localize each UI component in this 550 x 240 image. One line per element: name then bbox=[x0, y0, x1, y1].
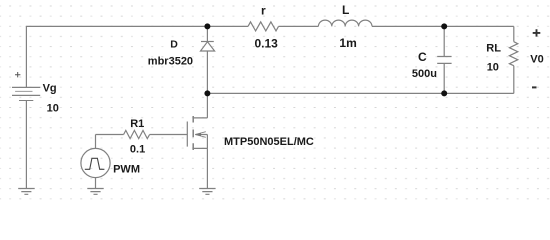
svg-text:R1: R1 bbox=[130, 118, 144, 130]
svg-text:C: C bbox=[418, 50, 427, 64]
svg-text:V0: V0 bbox=[530, 53, 543, 65]
svg-text:1m: 1m bbox=[339, 36, 356, 50]
svg-text:D: D bbox=[170, 38, 178, 50]
svg-text:MTP50N05EL/MC: MTP50N05EL/MC bbox=[224, 136, 314, 148]
svg-text:RL: RL bbox=[486, 43, 501, 55]
svg-text:500u: 500u bbox=[412, 68, 437, 80]
svg-text:0.13: 0.13 bbox=[255, 37, 279, 51]
svg-text:mbr3520: mbr3520 bbox=[148, 55, 193, 67]
svg-text:10: 10 bbox=[47, 102, 59, 114]
svg-text:10: 10 bbox=[487, 61, 499, 73]
svg-text:L: L bbox=[342, 3, 349, 17]
svg-text:r: r bbox=[261, 3, 266, 17]
svg-text:0.1: 0.1 bbox=[130, 144, 145, 156]
svg-text:Vg: Vg bbox=[43, 82, 57, 94]
svg-text:PWM: PWM bbox=[113, 163, 140, 175]
